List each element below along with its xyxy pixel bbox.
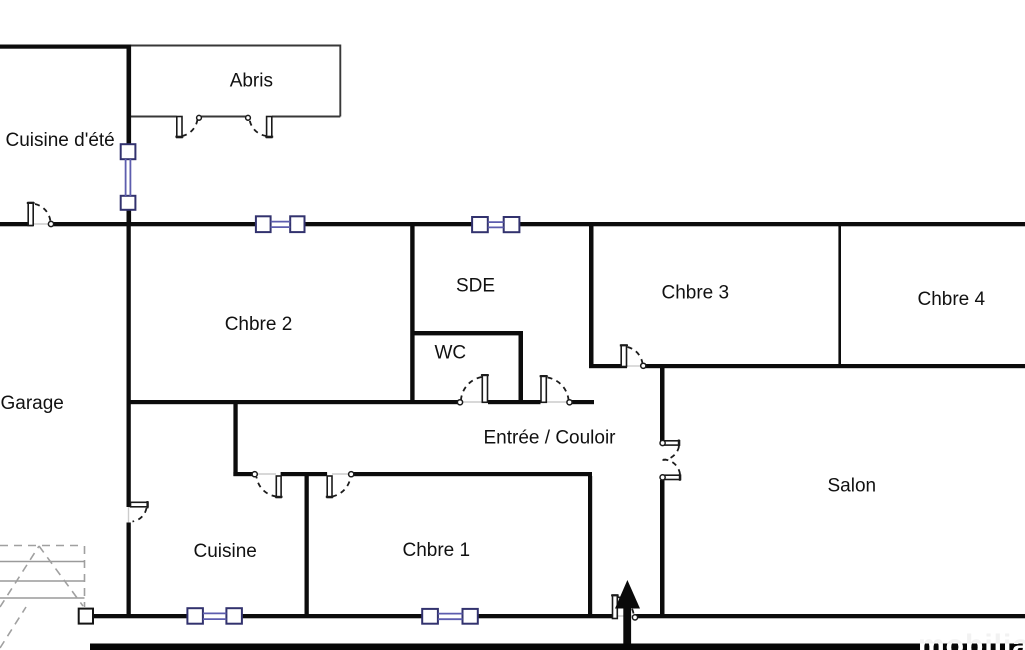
svg-text:Abris: Abris [230,71,273,92]
svg-text:Chbre 2: Chbre 2 [225,314,293,335]
svg-text:WC: WC [435,343,467,364]
svg-text:Chbre 3: Chbre 3 [662,283,730,304]
svg-text:Cuisine d'été: Cuisine d'été [6,130,115,151]
svg-text:SDE: SDE [456,275,495,296]
svg-text:Chbre 1: Chbre 1 [403,540,471,561]
svg-text:Salon: Salon [828,476,877,497]
svg-text:Entrée / Couloir: Entrée / Couloir [484,428,617,449]
svg-text:Chbre 4: Chbre 4 [918,289,986,310]
svg-text:Cuisine: Cuisine [194,541,257,562]
svg-text:Garage: Garage [1,393,64,414]
